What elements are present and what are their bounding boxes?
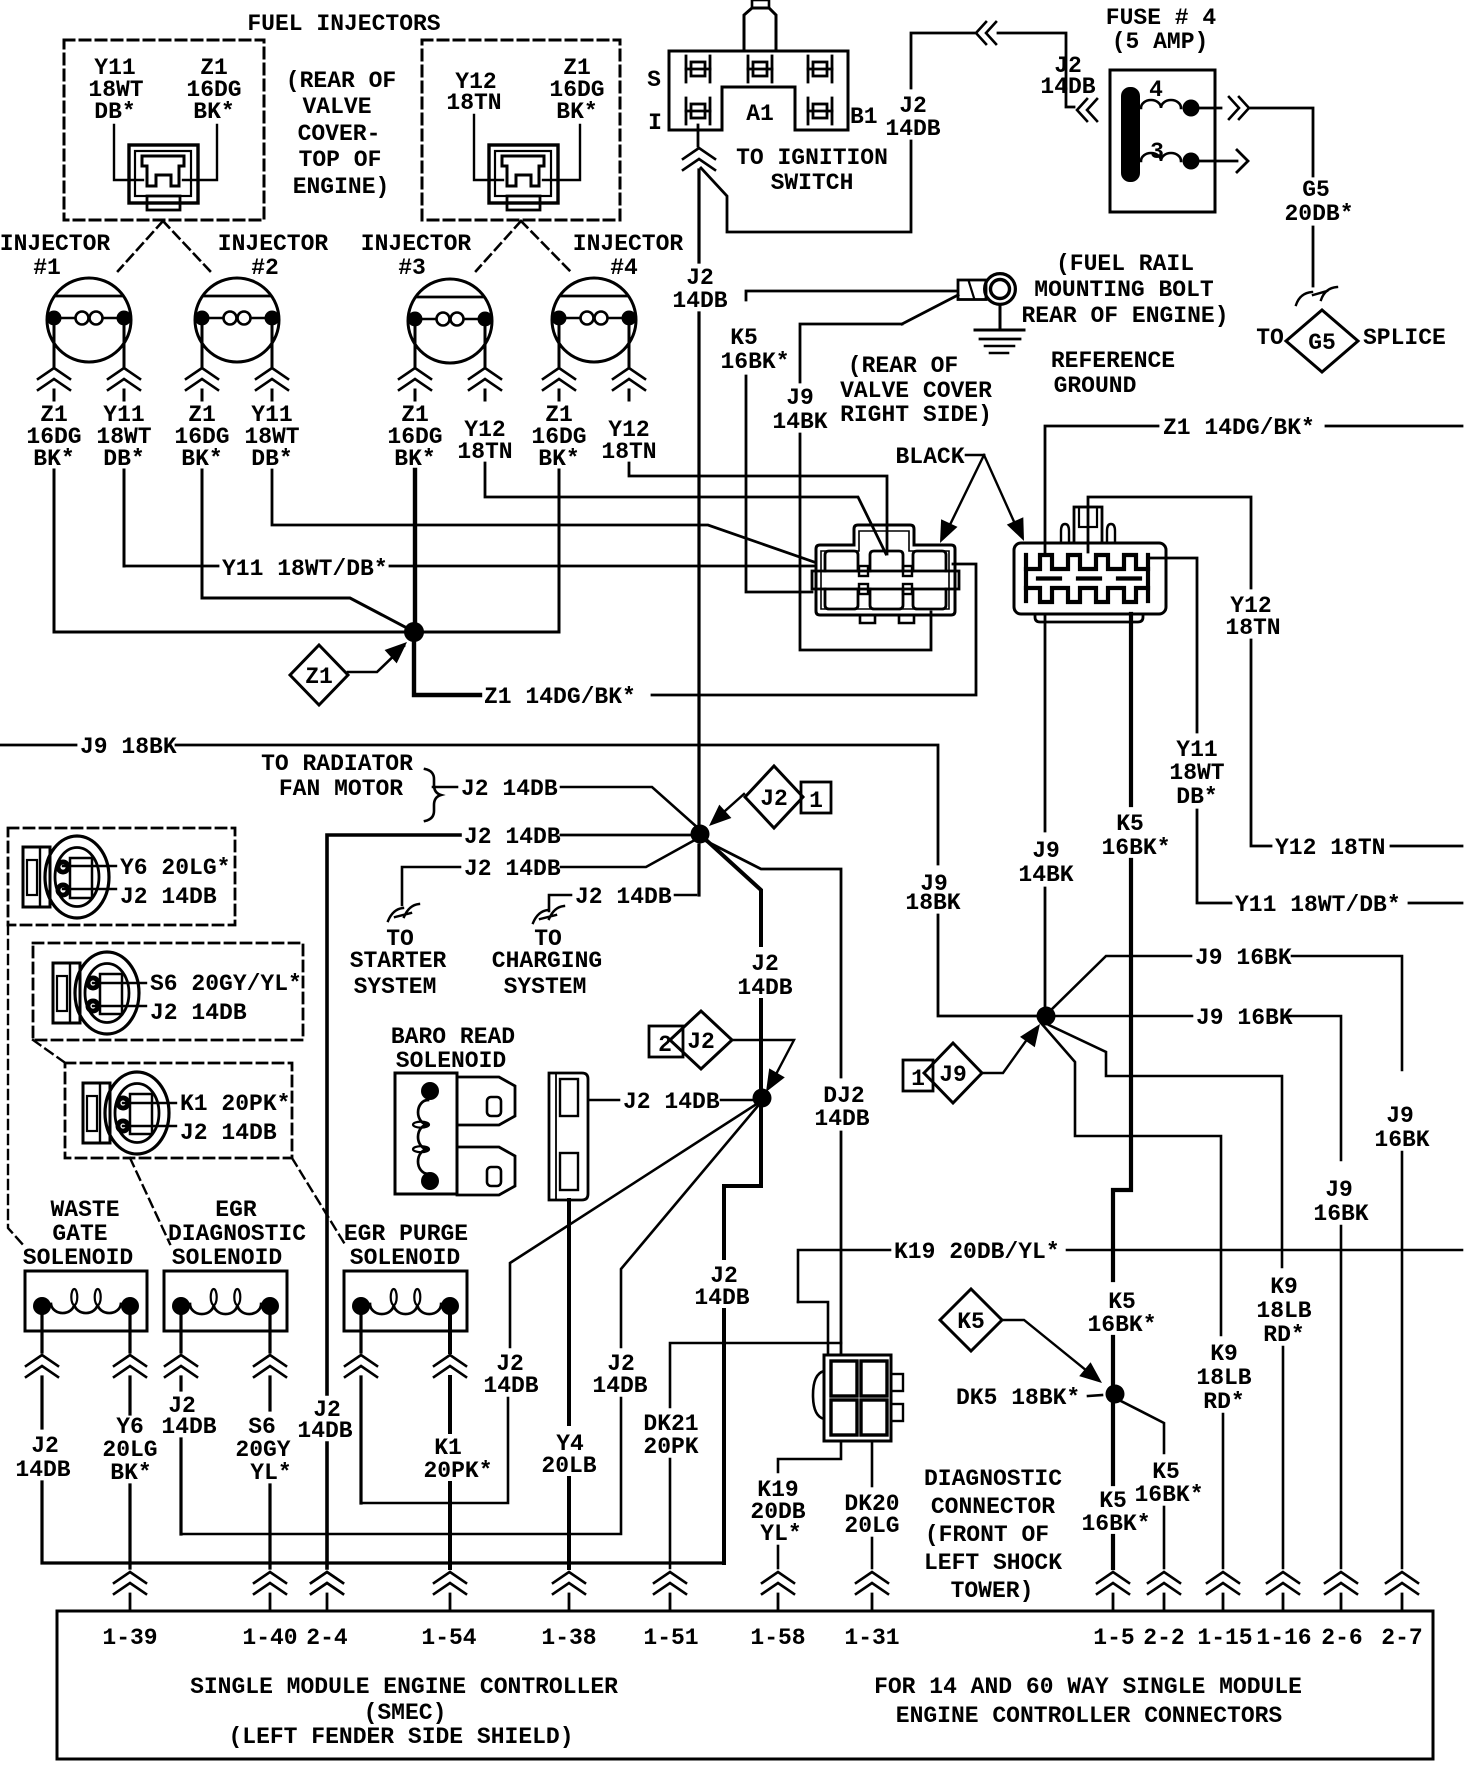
svg-text:16BK*: 16BK* [1134,1482,1203,1508]
label SINGLE MODULE ENGINE CONTROLLER (SMEC) (LEFT FENDER SIDE SHIELD) [190,1674,618,1750]
svg-text:INJECTOR: INJECTOR [361,231,472,257]
wire DJ2 14DB branch [706,841,841,1077]
splice junction Z1 [404,622,424,642]
junction K5 dot [1106,1385,1125,1404]
svg-text:14DB: 14DB [694,1285,749,1311]
harness break chevron above SMEC x=1341 [1325,1572,1357,1583]
wire Y4 20LB from baro mate [567,1200,571,1424]
wire injector lead x=272 (Y11) [271,323,274,366]
fuse bus bar [1122,88,1139,181]
svg-text:K19 20DB/YL*: K19 20DB/YL* [894,1239,1060,1265]
note (REAR OF VALVE COVER RIGHT SIDE) [840,353,992,428]
EGR diagnostic solenoid terminal dots [172,1297,190,1315]
harness break chevron purge left [345,1355,377,1366]
wire K9 to SMEC 1-16 [1282,1347,1285,1568]
bracket radiator [425,769,441,821]
wire injector lead x=124 (Y11) [123,323,126,366]
svg-text:VALVE: VALVE [302,94,371,120]
svg-text:INJECTOR: INJECTOR [0,231,110,257]
wire J2 14DB lead from baro mate [590,1099,619,1102]
svg-text:Z1 14DG/BK*: Z1 14DG/BK* [484,684,636,710]
svg-text:(5 AMP): (5 AMP) [1112,29,1209,55]
svg-text:SINGLE MODULE ENGINE CONTROLLE: SINGLE MODULE ENGINE CONTROLLER [190,1674,618,1700]
note (REAR OF VALVE COVER- TOP OF ENGINE) [286,68,396,200]
harness break chevron fuse output [1239,97,1249,119]
dashed leader to WASTE GATE SOLENOID [8,925,25,1247]
wire J9 18BK down to junction J9 [938,915,1037,1016]
svg-text:18TN: 18TN [601,439,656,465]
8-way connector top bumps [1061,524,1069,543]
8-way connector top tab [1074,507,1102,543]
note (FUEL RAIL MOUNTING BOLT REAR OF ENGINE) [1021,251,1228,329]
wire K5 16BK* to SMEC 1-5 [1111,1403,1115,1484]
svg-text:#1: #1 [33,255,61,281]
injector #4 coil symbol [552,278,637,362]
6-way connector bottom tabs [860,615,875,623]
harness break chevron above SMEC x=1402 [1386,1572,1418,1583]
svg-text:REFERENCE: REFERENCE [1051,348,1175,374]
svg-text:STARTER: STARTER [350,948,447,974]
wire J9 16BK down to SMEC 2-6 [1340,1226,1343,1568]
wire J2 14DB ignition to junction J2 (long vertical) [697,170,700,262]
svg-text:BK*: BK* [110,1460,151,1486]
svg-text:Z1 14DG/BK*: Z1 14DG/BK* [1163,415,1315,441]
arrow flag J9-1 to junction [982,1038,1028,1073]
svg-text:1-54: 1-54 [421,1625,476,1651]
svg-text:20LG: 20LG [844,1513,899,1539]
wire K9 18LB RD* branch 1 [1041,1023,1221,1335]
harness break chevron EGR diag left [165,1355,197,1366]
6-way connector pin cavities bottom row [825,589,858,609]
flag J2 1 box [801,782,831,813]
harness break chevron x=202 [186,368,218,379]
svg-text:BK*: BK* [556,99,597,125]
injector #1 coil symbol [47,278,132,362]
svg-text:J9: J9 [786,385,814,411]
wire G5 below label [1312,227,1315,286]
svg-text:J2: J2 [751,951,779,977]
svg-text:DIAGNOSTIC: DIAGNOSTIC [924,1466,1062,1492]
svg-text:18TN: 18TN [446,90,501,116]
8-way black connector body [1014,543,1166,614]
EGR purge solenoid terminal dots [352,1297,370,1315]
svg-text:J2: J2 [760,786,788,812]
svg-text:1-38: 1-38 [541,1625,596,1651]
svg-text:TO: TO [1256,325,1284,351]
flag J2 2 box [649,1026,683,1057]
svg-text:K9: K9 [1270,1274,1298,1300]
wire below chevron x=629 [628,390,631,400]
svg-text:(REAR OF: (REAR OF [848,353,958,379]
svg-text:1-31: 1-31 [844,1625,899,1651]
svg-text:J9: J9 [1325,1177,1353,1203]
ignition pin S (top-left) [685,56,688,82]
svg-text:16BK: 16BK [1313,1201,1368,1227]
wire K5 16BK* branch to 2-2 [1121,1401,1164,1453]
svg-text:14DB: 14DB [814,1106,869,1132]
dashed leader box1 to injector 2 [163,221,210,271]
wire K9 18LB RD* branch 2 [1049,1025,1282,1267]
6-way connector cavity key notches [859,566,868,576]
harness break chevron waste gate left [26,1355,58,1366]
wire injector lead x=202 (Z1) [201,323,204,366]
injector harness connector icon (box 1) [129,145,198,210]
wire J9 16BK upper branch [1052,956,1191,1009]
connector icon waste gate solenoid [23,836,109,918]
svg-text:18TN: 18TN [457,439,512,465]
svg-text:GROUND: GROUND [1054,373,1137,399]
svg-text:18WT: 18WT [1169,760,1224,786]
broken-wire hook symbol G5 [1296,287,1337,305]
wire J9 14BK from 8-way connector to junction J9 [1044,614,1047,831]
connector icon EGR diagnostic solenoid [53,952,139,1034]
dashed leader to EGR PURGE SOLENOID [292,1158,346,1246]
svg-text:ENGINE): ENGINE) [293,174,390,200]
wire injector lead x=54 (Z1) [53,323,56,366]
svg-text:Y6 20LG*: Y6 20LG* [120,855,230,881]
diagnostic connector body [813,1355,903,1441]
svg-text:SOLENOID: SOLENOID [350,1245,460,1271]
svg-text:MOUNTING BOLT: MOUNTING BOLT [1034,277,1214,303]
arrow flag J2-1 to junction [716,794,744,819]
svg-text:J2: J2 [31,1433,59,1459]
harness break chevron above SMEC x=670 [654,1572,686,1583]
wire Y11 18WT/DB* from 8-way connector [1150,558,1197,732]
wire to fuse box corner [998,33,1074,107]
harness break chevron 2-4 above SMEC [311,1572,343,1583]
wire Y12 18TN from 8-way connector top [1088,497,1251,588]
wire Z1 injector2 to splice Z1 [202,470,405,627]
ignition connector key neck [744,8,776,51]
svg-text:14DB: 14DB [1040,74,1095,100]
wire Y11 18WT/DB* to 6-way connector [390,565,816,568]
waste gate solenoid terminal dots [33,1297,51,1315]
svg-text:BK*: BK* [181,446,222,472]
svg-text:K9: K9 [1210,1341,1238,1367]
svg-text:1-40: 1-40 [242,1625,297,1651]
EGR purge solenoid coil [370,1304,441,1314]
svg-text:J2 14DB: J2 14DB [575,884,672,910]
harness break chevron above SMEC x=130 [114,1572,146,1583]
svg-text:K5: K5 [730,325,758,351]
harness break chevron above SMEC x=1223 [1207,1572,1239,1583]
baro solenoid terminal dots [421,1082,439,1100]
svg-text:COVER-: COVER- [298,121,381,147]
wire K9 to SMEC 1-15 [1222,1414,1225,1568]
junction J9 dot [1037,1007,1056,1026]
wire K5 16BK* down to 6-way connector [746,376,812,592]
lead lines Y6 [63,865,116,867]
wire J9 16BK east ray [1055,1015,1192,1018]
wire lead Z1 to connector [183,125,217,180]
baro solenoid coil [418,1100,428,1174]
wire into junction 2 [759,1000,763,1089]
wire J2 junction2 to EGR purge (southwest diagonal) [510,1105,755,1347]
EGR diagnostic solenoid coil box [164,1271,287,1331]
svg-text:(SMEC): (SMEC) [364,1700,447,1726]
wire purge feed down and left [361,1398,508,1503]
harness break chevron x=629 [613,368,645,379]
svg-text:FOR 14 AND 60 WAY SINGLE MODUL: FOR 14 AND 60 WAY SINGLE MODULE [874,1674,1302,1700]
8-way connector pin maze bottom row [1026,588,1148,602]
wire K5 to junction K5 [1111,1337,1115,1386]
svg-text:J2 14DB: J2 14DB [623,1089,720,1115]
svg-text:SOLENOID: SOLENOID [23,1245,133,1271]
svg-text:16BK*: 16BK* [1081,1511,1150,1537]
svg-text:14BK: 14BK [1018,862,1073,888]
svg-text:1-5: 1-5 [1093,1625,1134,1651]
wire DK20 20LG from diagnostic connector [871,1441,874,1486]
waste gate solenoid coil [51,1304,121,1313]
svg-text:#3: #3 [398,255,426,281]
wire below chevron x=415 [414,390,417,400]
svg-text:1-51: 1-51 [643,1625,698,1651]
harness break chevron above SMEC x=778 [762,1572,794,1583]
svg-text:18LB: 18LB [1196,1365,1251,1391]
svg-text:CHARGING: CHARGING [492,948,602,974]
svg-text:RD*: RD* [1203,1389,1244,1415]
wire below chevron x=559 [558,390,561,400]
svg-text:DB*: DB* [94,99,135,125]
svg-text:2-6: 2-6 [1321,1625,1362,1651]
label J9 18BK (left horizontal) [0,744,76,747]
wire below chevron x=202 [201,390,204,400]
svg-text:14DB: 14DB [592,1373,647,1399]
svg-text:DK5 18BK*: DK5 18BK* [956,1385,1080,1411]
svg-text:DB*: DB* [1176,784,1217,810]
wire Z1 injector1 to splice Z1 [54,470,404,632]
svg-text:TOWER): TOWER) [951,1578,1034,1604]
junction J2 starburst [691,825,710,844]
harness break chevron x=559 [543,368,575,379]
svg-text:SOLENOID: SOLENOID [396,1048,506,1074]
EGR diagnostic solenoid coil [190,1304,261,1314]
wire Y12 18TN to right edge [1391,845,1462,848]
wire K19 to right edge [1067,1249,1462,1252]
svg-text:2: 2 [658,1032,672,1058]
ground stem [999,305,1002,330]
wire charging branch from south column [697,845,700,895]
harness break chevron above SMEC x=327 [311,1572,343,1583]
svg-text:1-16: 1-16 [1256,1625,1311,1651]
8-way connector maze sides [1026,555,1148,601]
svg-text:BARO READ: BARO READ [391,1024,515,1050]
wire below chevron x=485 [484,390,487,400]
ignition pin top-middle [747,56,750,82]
wire K1 20PK* purge right pin [448,1313,452,1352]
baro read solenoid body [395,1073,457,1194]
wire DJ2 down to diagnostic connector [840,1132,843,1355]
wire Y11 column down to corner [1197,810,1231,903]
wire K5 16BK* to ring terminal [746,291,956,300]
arrow BLACK to 8-way connector [984,455,1020,535]
svg-text:20DB*: 20DB* [1284,201,1353,227]
SMEC controller box [57,1611,1433,1759]
svg-text:14DB: 14DB [885,116,940,142]
8-way connector bottom lip [1035,614,1143,622]
svg-text:J2 14DB: J2 14DB [464,856,561,882]
flag J2 2 diamond [670,1011,732,1069]
svg-text:14DB: 14DB [15,1457,70,1483]
svg-text:16BK*: 16BK* [1101,835,1170,861]
svg-text:GATE: GATE [52,1221,107,1247]
label FOR 14 AND 60 WAY SINGLE MODULE ENGINE CONTROLLER CONNECTORS [874,1674,1302,1729]
wire radiator to junction J2 [561,787,698,828]
wire DK21 20PK from DJ2 corner [670,1343,841,1407]
wire lead Y12 to connector [474,115,503,180]
harness break chevron x=415 [399,368,431,379]
svg-text:G5: G5 [1308,330,1336,356]
svg-text:(FUEL RAIL: (FUEL RAIL [1056,251,1194,277]
wire J2 14DB waste gate left pin [40,1313,43,1352]
svg-text:20LB: 20LB [541,1453,596,1479]
harness break chevron x=124 [108,368,140,379]
flag K5 diamond [940,1289,1002,1351]
svg-text:DB*: DB* [251,446,292,472]
harness break chevron above SMEC x=450 [434,1572,466,1583]
harness break chevron S6 [254,1355,286,1366]
wire J9 16BK to corner 2-6 [1287,1016,1341,1160]
fuse element 3 [1141,153,1181,161]
wire K19 into diagnostic connector [798,1302,828,1355]
svg-text:(REAR OF: (REAR OF [286,68,396,94]
wire injector lead x=629 (Y12) [628,323,631,366]
svg-text:FUEL INJECTORS: FUEL INJECTORS [247,11,440,37]
wire DK21 to SMEC 1-51 [669,1459,672,1568]
svg-text:1-15: 1-15 [1197,1625,1252,1651]
wire Y12 18TN down to corner [1251,640,1271,846]
svg-text:18LB: 18LB [1256,1298,1311,1324]
wire below chevron x=124 [123,390,126,400]
wire J2 column to bus [722,1310,726,1563]
wire J2 14DB EGR diagnostic left pin [179,1313,182,1352]
harness break chevron above SMEC x=1283 [1267,1572,1299,1583]
wire Z1 14DG/BK* below junction [414,642,480,695]
svg-text:SPLICE: SPLICE [1363,325,1446,351]
svg-text:G5: G5 [1302,177,1330,203]
svg-text:14DB: 14DB [483,1373,538,1399]
dashed leader box2 to injector 3 [476,221,521,271]
wire K19 from diagnostic connector to SMEC 1-58 [778,1441,841,1472]
dashed box EGR diagnostic connector [33,943,303,1040]
wire lead Z1 to connector (box 2) [543,125,580,180]
EGR purge solenoid coil box [344,1271,467,1331]
wire J2 EGR diag down to bus [179,1439,182,1534]
wire injector lead x=485 (Y12) [484,323,487,366]
wire K19 to chevron 1-58 [777,1546,780,1568]
svg-text:14DB: 14DB [297,1418,352,1444]
svg-text:20PK*: 20PK* [423,1458,492,1484]
wire G5 from fuse to corner [1251,108,1313,176]
svg-text:RIGHT SIDE): RIGHT SIDE) [840,402,992,428]
broken-wire hook symbol starter [388,904,419,921]
svg-text:16BK*: 16BK* [720,349,789,375]
flag J9 1 box [903,1060,933,1091]
ignition pin B1 (bottom-right) [807,98,810,124]
svg-text:18BK: 18BK [905,890,960,916]
wire S6 to SMEC 1-40 [268,1485,271,1568]
svg-text:14DB: 14DB [161,1414,216,1440]
harness break chevron wire to fuse [976,22,986,44]
injector #3 coil symbol [408,279,493,363]
wire Y6 20LG BK* right pin [128,1313,131,1352]
svg-text:#2: #2 [251,255,279,281]
fuse terminal dot 3 [1183,153,1200,170]
wire below chevron x=54 [53,390,56,400]
wire Y4 to SMEC 1-38 [567,1478,571,1568]
svg-text:20PK: 20PK [643,1434,698,1460]
wire Z1 14DG/BK* to 6-way connector right side [652,564,976,695]
wire J9 14BK down to 6-way connector [800,434,931,650]
dashed box EGR purge connector [65,1063,292,1158]
svg-text:1-39: 1-39 [102,1625,157,1651]
svg-text:J9 18BK: J9 18BK [80,734,177,760]
svg-text:J9 16BK: J9 16BK [1195,945,1292,971]
svg-text:REAR OF ENGINE): REAR OF ENGINE) [1021,303,1228,329]
injector harness connector icon (box 2) [489,145,558,210]
wire below chevron x=272 [271,390,274,400]
wire K5 to SMEC 2-2 [1163,1507,1166,1568]
svg-text:J9: J9 [1386,1103,1414,1129]
svg-text:Y12 18TN: Y12 18TN [1275,835,1385,861]
connector icon baro mate [549,1073,588,1200]
harness break chevron above SMEC x=569 [553,1572,585,1583]
6-way connector key slot band [812,571,959,589]
baro spade terminal upper [457,1077,515,1125]
harness break chevron Y6 [114,1355,146,1366]
lead lines K1 [123,1102,176,1104]
svg-text:B1: B1 [850,104,878,130]
splice symbol G5 diamond [1286,310,1358,372]
wire J2 14DB west ray [561,834,691,837]
wire starter branch [561,841,693,867]
svg-text:(FRONT OF: (FRONT OF [925,1522,1049,1548]
svg-text:14DB: 14DB [737,975,792,1001]
wire J2 to junction 2 (southeast ray) [705,839,761,945]
fuse terminal dot 4 [1183,100,1200,117]
svg-text:TO IGNITION: TO IGNITION [736,145,888,171]
harness break chevron at fuse input [1077,99,1087,121]
svg-text:BK*: BK* [33,446,74,472]
connector icon EGR purge solenoid [83,1072,169,1154]
svg-text:EGR: EGR [215,1197,257,1223]
arrow flag J2-2 to junction 2 [732,1040,794,1080]
wire J2 14DB radiator lead [433,786,457,789]
svg-text:J2 14DB: J2 14DB [461,776,558,802]
wire J9 diagonal to ring terminal [902,295,958,324]
wire DK20 to SMEC 1-31 [871,1538,874,1568]
svg-text:VALVE COVER: VALVE COVER [840,378,992,404]
arrow flag K5 to junction K5 [1002,1320,1092,1375]
fuse box [1110,70,1215,212]
harness break chevron above SMEC x=270 [254,1572,286,1583]
flag Z1 splice diamond [290,645,348,705]
svg-text:#4: #4 [610,255,638,281]
svg-text:RD*: RD* [1263,1322,1304,1348]
svg-text:INJECTOR: INJECTOR [218,231,329,257]
svg-text:ENGINE CONTROLLER CONNECTORS: ENGINE CONTROLLER CONNECTORS [896,1703,1283,1729]
wire charging drop [549,895,571,911]
dashed box waste gate connector [8,828,235,925]
svg-text:14DB: 14DB [672,288,727,314]
wire injector lead x=415 (Z1) [414,323,417,366]
svg-text:BLACK: BLACK [895,444,964,470]
svg-text:K5: K5 [957,1309,985,1335]
svg-text:INJECTOR: INJECTOR [573,231,684,257]
wire Y12 injector4 to 6-way connector [629,463,887,554]
svg-text:J9: J9 [1032,838,1060,864]
8-way connector pin maze top row [1026,555,1148,569]
